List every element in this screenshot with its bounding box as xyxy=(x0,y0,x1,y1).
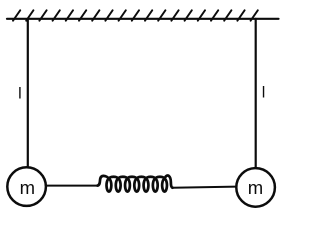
wire: spring to right mass xyxy=(172,187,236,188)
svg-text:m: m xyxy=(20,177,35,198)
ceiling hatching xyxy=(13,10,258,20)
spring (coil) between masses xyxy=(97,176,172,192)
wire: right pendulum string xyxy=(255,19,257,168)
svg-text:l: l xyxy=(18,86,22,103)
svg-text:m: m xyxy=(248,177,263,198)
ceiling line xyxy=(7,18,279,20)
wire: left mass to spring xyxy=(46,185,98,187)
node: right mass circle xyxy=(236,168,275,207)
svg-text:l: l xyxy=(262,85,266,102)
wire: left pendulum string xyxy=(27,19,29,168)
node: left mass circle xyxy=(7,167,46,206)
